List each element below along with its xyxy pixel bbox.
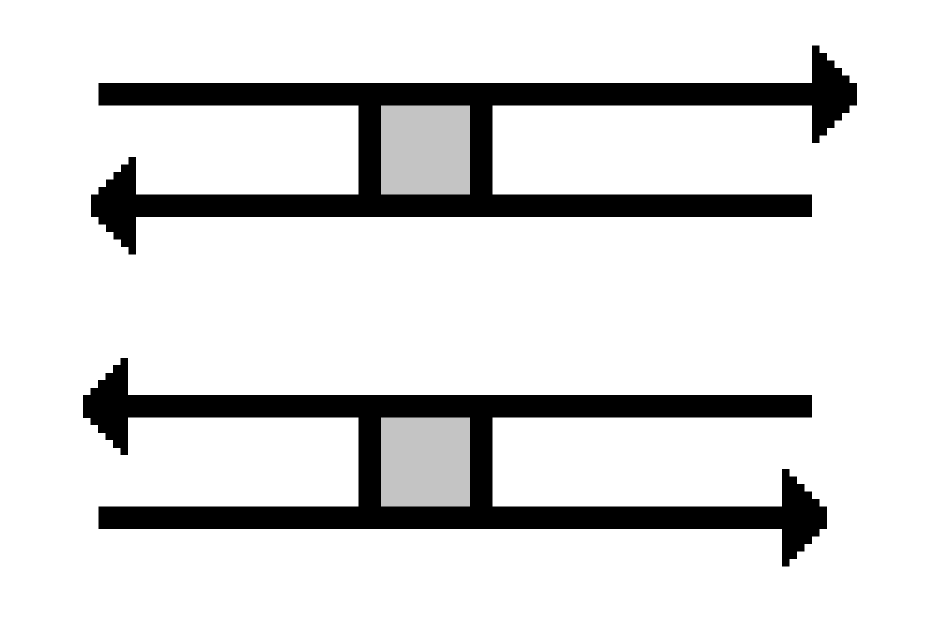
lead: upper box right vertical bar	[470, 94, 492, 206]
lead: lower box right vertical bar	[470, 406, 492, 518]
arrowhead: lower-left, pointing left	[83, 358, 128, 455]
wire: lower pair, bottom conductor	[99, 507, 787, 530]
component box B2 (lower gray block)	[381, 417, 470, 507]
lead: upper box left vertical bar	[358, 94, 381, 206]
lead: lower box left vertical bar	[358, 406, 381, 518]
component box B1 (upper gray block)	[381, 104, 470, 195]
wire: upper pair, top conductor (left end to arrow back)	[98, 83, 816, 106]
wire: upper pair, bottom conductor	[130, 195, 812, 218]
arrowhead: upper-right, pointing right	[812, 46, 857, 144]
arrowhead: lower-right, pointing right	[782, 469, 827, 567]
wire: lower pair, top conductor	[122, 395, 812, 418]
arrowhead: upper-left, pointing left	[91, 157, 136, 255]
